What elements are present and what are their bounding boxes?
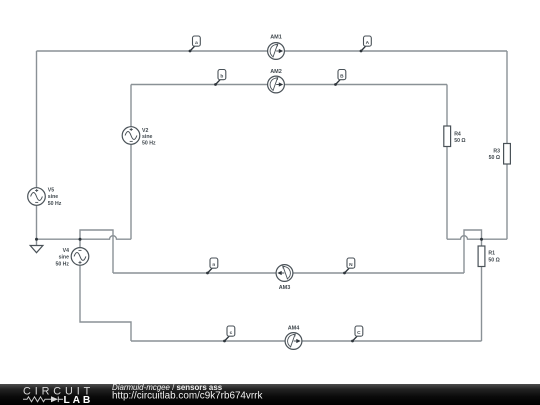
svg-text:50 Ω: 50 Ω bbox=[489, 155, 500, 161]
resistor R1 bbox=[478, 246, 500, 267]
wire jog B from n-row up and over to R1 node bbox=[464, 230, 482, 273]
wire ground row right segment with hop at x=464 bbox=[447, 236, 507, 240]
ammeter AM1 bbox=[268, 35, 285, 60]
svg-text:C: C bbox=[357, 330, 361, 336]
svg-text:http://circuitlab.com/c9k7rb67: http://circuitlab.com/c9k7rb674vrrk bbox=[112, 390, 262, 401]
wire V2 column bbox=[130, 85, 132, 240]
voltage source V2 bbox=[122, 127, 140, 145]
wire V4 branch down and right bbox=[80, 239, 131, 341]
logo resistor-diode squiggle bbox=[23, 397, 63, 403]
svg-text:R1: R1 bbox=[488, 251, 495, 257]
node flag c bbox=[223, 326, 235, 342]
svg-text:V4: V4 bbox=[63, 248, 69, 254]
junction dot R1 node bbox=[480, 238, 483, 241]
svg-text:AM4: AM4 bbox=[288, 326, 301, 332]
svg-text:AM3: AM3 bbox=[279, 285, 291, 291]
svg-text:N: N bbox=[349, 262, 353, 268]
node flag B bbox=[334, 70, 346, 86]
V5 name and value labels: V5 / sine / 50 Hz bbox=[48, 187, 62, 207]
wire jog A from V4 node up and over to n-row bbox=[80, 230, 113, 273]
wire second row b-B bbox=[131, 84, 447, 86]
wire R1 column bbox=[481, 239, 483, 341]
ammeter AM3 (mirrored, arrow left) bbox=[276, 265, 293, 291]
V2 name and value labels: V2 / sine / 50 Hz bbox=[142, 128, 156, 147]
svg-text:n: n bbox=[212, 263, 215, 268]
svg-text:R3: R3 bbox=[493, 148, 500, 154]
resistor R4 bbox=[444, 126, 466, 147]
svg-text:50 Hz: 50 Hz bbox=[48, 201, 62, 207]
V4 name and value labels: V4 / sine / 50 Hz bbox=[55, 248, 69, 267]
svg-text:b: b bbox=[220, 73, 223, 79]
node flag N bbox=[343, 258, 355, 274]
wire top row a-A bbox=[37, 50, 508, 52]
svg-text:50 Hz: 50 Hz bbox=[55, 261, 69, 267]
wire R3 column bbox=[506, 51, 508, 239]
junction dot ground node bbox=[35, 238, 38, 241]
voltage source V4 (inverted polarity) bbox=[71, 248, 89, 266]
node flag a bbox=[189, 36, 201, 52]
svg-text:AM1: AM1 bbox=[270, 35, 282, 41]
ground bbox=[30, 246, 43, 253]
svg-text:50 Hz: 50 Hz bbox=[142, 141, 156, 147]
resistor R3 bbox=[489, 144, 511, 165]
junction dot V4 node bbox=[79, 238, 82, 241]
svg-text:sine: sine bbox=[48, 194, 58, 200]
svg-text:50 Ω: 50 Ω bbox=[454, 138, 465, 144]
wire R4 column bbox=[446, 85, 448, 240]
svg-text:A: A bbox=[366, 40, 370, 46]
svg-text:50 Ω: 50 Ω bbox=[488, 257, 499, 263]
wire c-C bottom row bbox=[131, 340, 482, 342]
wire ground row left segment with hop at x=113 bbox=[37, 236, 132, 240]
node flag n bbox=[206, 258, 218, 274]
node flag A bbox=[360, 36, 372, 52]
svg-text:sine: sine bbox=[59, 255, 69, 261]
svg-text:AM2: AM2 bbox=[270, 69, 282, 75]
wire n-N row bbox=[113, 272, 464, 274]
svg-text:B: B bbox=[340, 73, 344, 79]
ammeter AM2 bbox=[268, 69, 285, 93]
svg-text:sine: sine bbox=[142, 134, 152, 140]
svg-text:LAB: LAB bbox=[64, 395, 94, 405]
svg-text:R4: R4 bbox=[454, 131, 461, 137]
svg-text:V5: V5 bbox=[48, 187, 54, 193]
ammeter AM4 bbox=[285, 326, 302, 350]
wire ground stub bbox=[36, 239, 38, 245]
node flag C bbox=[351, 326, 363, 342]
svg-text:a: a bbox=[195, 41, 198, 46]
voltage source V5 bbox=[28, 188, 46, 206]
wire left column V5 bbox=[36, 51, 38, 239]
svg-text:c: c bbox=[230, 331, 233, 336]
node flag b bbox=[214, 70, 226, 86]
svg-text:V2: V2 bbox=[142, 128, 148, 134]
